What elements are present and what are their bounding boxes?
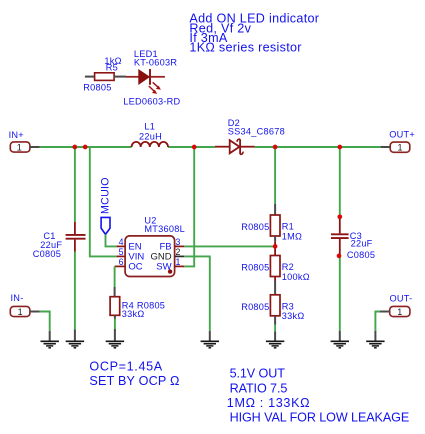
svg-text:RATIO 7.5: RATIO 7.5 [230,381,288,395]
ground under C1 [66,341,84,348]
wire VIN vertical [90,147,117,256]
svg-text:R2: R2 [282,262,294,272]
svg-text:33kΩ: 33kΩ [282,311,305,321]
pin 1 SW [175,265,185,267]
svg-text:4: 4 [119,237,124,247]
svg-text:R1: R1 [282,222,294,232]
terminal OUT- [380,306,410,316]
svg-text:R0805: R0805 [83,82,111,92]
wire R1 to R2 [274,236,276,241]
svg-text:OCP=1.45A: OCP=1.45A [89,359,162,373]
junction rail dot R column [273,145,278,150]
wire GND down [184,256,210,330]
annotation OCP note [89,359,179,388]
wire R2 to R3 [274,277,276,282]
svg-text:HIGH VAL FOR LOW LEAKAGE: HIGH VAL FOR LOW LEAKAGE [230,411,410,425]
svg-text:33kΩ: 33kΩ [122,309,145,319]
resistor R5 [85,73,126,81]
svg-text:1MΩ: 1MΩ [282,232,302,242]
ground under R3 [266,341,284,348]
svg-text:22uF: 22uF [351,238,373,248]
svg-text:1: 1 [176,257,181,267]
wire C1 vertical [74,147,76,222]
wire R column top [274,147,276,204]
ground under IN- [41,341,59,348]
wire OUT- to ground [375,312,380,332]
svg-text:OUT-: OUT- [390,293,413,303]
svg-text:1MΩ : 133KΩ: 1MΩ : 133KΩ [227,396,310,410]
svg-text:R0805: R0805 [241,302,269,312]
wire rail D2 to OUT+ [255,146,381,148]
svg-text:1: 1 [18,307,23,317]
wire C1 to ground [74,252,76,330]
pin 4 EN [117,245,126,247]
inductor L1 [132,142,168,147]
svg-text:SS34_C8678: SS34_C8678 [228,127,285,137]
ground under GND pin [201,341,219,348]
ground under C3 [331,341,349,348]
wire R3 to ground [274,316,276,325]
resistor R4 [110,297,120,316]
resistor R2 [270,256,280,277]
svg-text:R5: R5 [106,62,118,72]
wire OC down [114,266,116,287]
terminal OUT+ [381,142,410,152]
junction dot C3 top [337,214,342,219]
terminal IN+ [10,142,40,152]
wire SW up to rail [184,147,194,266]
pin 6 OC [115,265,126,267]
LED LED1 [126,69,165,94]
ground under OUT- [366,341,384,348]
svg-text:6: 6 [119,257,124,267]
svg-text:2: 2 [176,247,181,257]
svg-text:LED0603-RD: LED0603-RD [123,97,180,107]
svg-text:C0805: C0805 [33,249,61,259]
junction rail dot A [72,145,77,150]
annotation output note [227,367,409,425]
wire C3 vertical top [339,147,341,217]
terminal IN- [10,306,40,316]
annotation top note [189,12,319,55]
svg-text:1: 1 [17,142,22,152]
wire C3 to ground [339,256,341,331]
svg-text:R0805: R0805 [241,262,269,272]
junction rail dot C3 [337,145,342,150]
junction dot C3 bottom [337,254,342,259]
resistor R3 [270,295,280,316]
junction dot FB [273,244,278,249]
wire MCUIO to EN [106,234,117,246]
capacitor C1 [66,222,86,252]
svg-text:R3: R3 [282,301,294,311]
diode D2 [215,139,255,154]
svg-text:22uH: 22uH [139,132,162,142]
pin 3 FB [175,245,185,247]
svg-text:IN+: IN+ [9,130,24,140]
svg-text:1: 1 [397,307,402,317]
svg-text:100kΩ: 100kΩ [282,272,310,282]
svg-text:MCUIO: MCUIO [99,177,111,214]
capacitor C3 [331,217,349,256]
svg-text:OUT+: OUT+ [389,130,415,140]
svg-text:3: 3 [176,237,181,247]
op-amp U2 MT3608L box [125,236,175,277]
svg-text:C0805: C0805 [347,250,375,260]
wire IN+ rail left [40,146,132,148]
pin 2 GND [175,255,185,257]
junction dot SW corner [168,269,172,273]
svg-text:L1: L1 [144,122,155,132]
svg-text:1KΩ series resistor: 1KΩ series resistor [189,41,301,55]
net port MCUIO pentagon [101,217,110,234]
wire IN- to ground [40,312,50,331]
svg-text:MT3608L: MT3608L [144,224,185,234]
junction rail dot B [83,145,88,150]
svg-text:KT-0603R: KT-0603R [134,58,177,68]
svg-text:R0805: R0805 [241,222,269,232]
svg-text:1: 1 [397,143,402,153]
wire rail L1 to D2 [168,146,215,148]
pin 5 VIN [117,255,126,257]
junction rail dot SW [192,145,197,150]
svg-text:SET BY OCP Ω: SET BY OCP Ω [89,374,179,388]
svg-text:IN-: IN- [11,293,24,303]
svg-text:5: 5 [119,247,124,257]
svg-text:5.1V OUT: 5.1V OUT [230,367,286,381]
wire FB to R column [184,245,275,247]
ground under R4 [106,341,124,348]
resistor R1 [270,215,280,236]
wire R4 to ground [114,315,116,318]
svg-text:OC: OC [128,262,142,273]
